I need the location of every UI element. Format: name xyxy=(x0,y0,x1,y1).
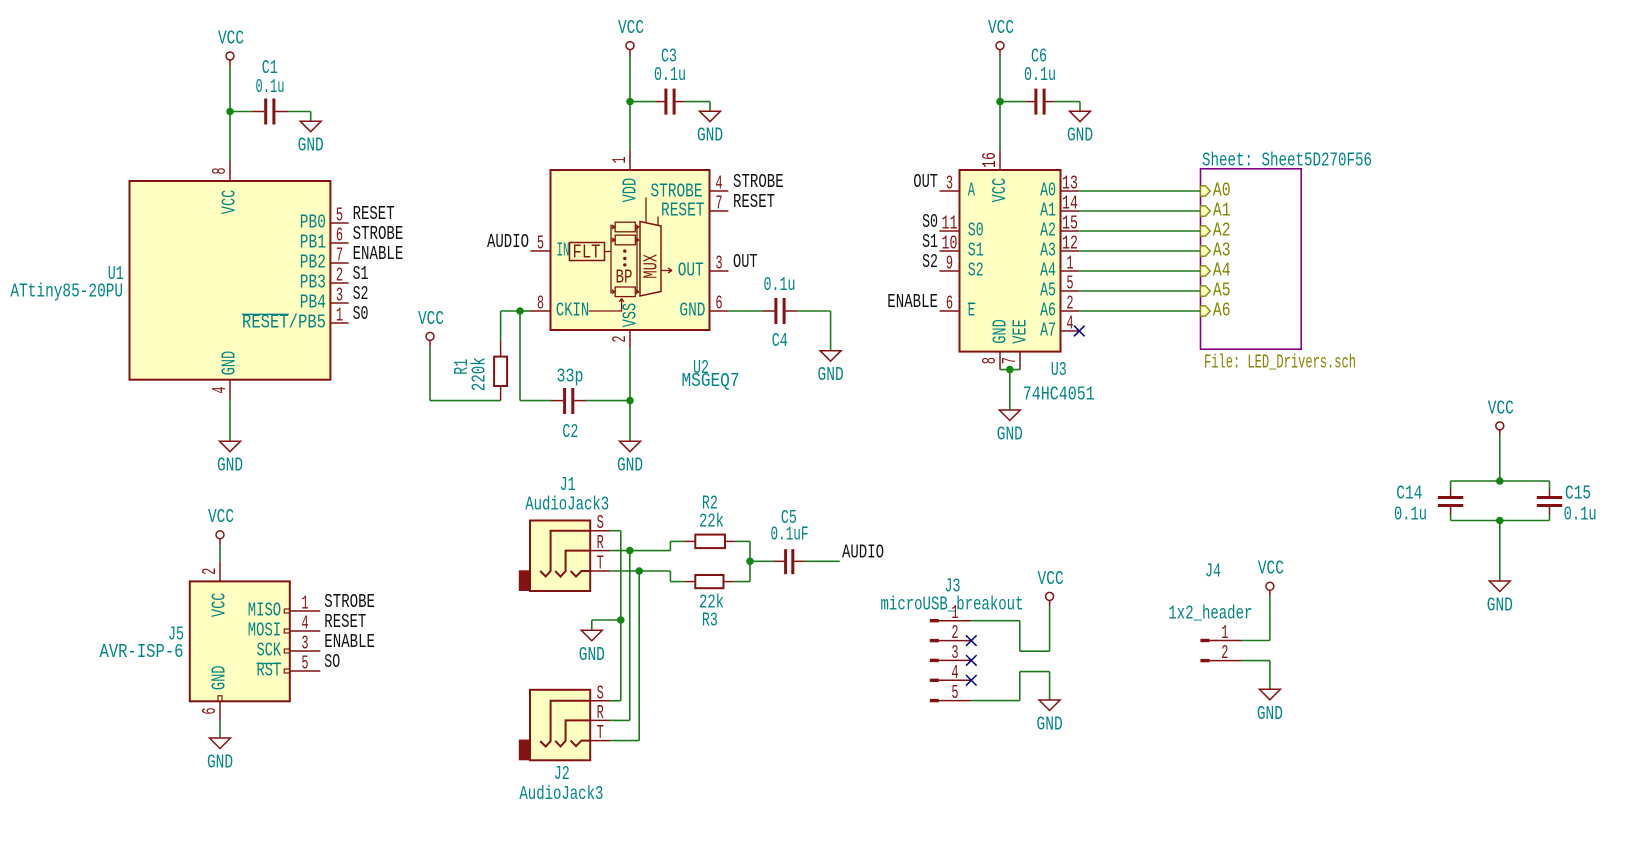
svg-text:1: 1 xyxy=(301,593,308,615)
svg-text:0.1u: 0.1u xyxy=(764,274,796,296)
pin 2 xyxy=(330,282,348,284)
wire VCC to U3 pin 16 xyxy=(999,56,1001,150)
wire A2 to sheet xyxy=(1079,230,1200,232)
pin 5 (J3) xyxy=(930,699,972,702)
wire A3 to sheet xyxy=(1079,250,1200,252)
sheet pin A5 xyxy=(1201,280,1231,302)
ground (C1) xyxy=(298,121,324,157)
junction xyxy=(1496,517,1504,525)
pin 1 xyxy=(284,609,320,613)
svg-text:9: 9 xyxy=(946,253,953,275)
svg-text:VCC: VCC xyxy=(989,178,1011,203)
svg-text:14: 14 xyxy=(1062,193,1078,215)
pin 10 xyxy=(940,250,960,252)
junction xyxy=(746,558,754,566)
wire C6 to GND xyxy=(1046,102,1081,112)
power VCC (U3) xyxy=(988,17,1014,56)
wire sleeve bus xyxy=(610,531,621,701)
svg-text:16: 16 xyxy=(979,152,1001,168)
svg-text:SO: SO xyxy=(324,651,340,673)
U2 internal MUX xyxy=(640,222,663,297)
wire VCC to U1 pin 8 xyxy=(229,66,231,161)
svg-text:0.1u: 0.1u xyxy=(1024,64,1056,86)
svg-text:R: R xyxy=(597,702,604,724)
svg-text:PB1: PB1 xyxy=(300,232,326,254)
U2 internal strobe/reset lines xyxy=(646,198,658,226)
svg-text:6: 6 xyxy=(336,225,343,247)
svg-text:GND: GND xyxy=(217,455,243,477)
svg-text:1x2_header: 1x2_header xyxy=(1168,602,1252,624)
wire ring to R2 xyxy=(630,541,696,550)
svg-text:AUDIO: AUDIO xyxy=(487,231,529,253)
svg-text:C4: C4 xyxy=(772,330,788,352)
svg-text:A3: A3 xyxy=(1213,240,1231,262)
junction xyxy=(626,98,634,106)
pin 5 xyxy=(284,669,320,673)
svg-text:S2: S2 xyxy=(353,283,369,305)
sheet pin A4 xyxy=(1201,260,1231,282)
svg-text:7: 7 xyxy=(336,245,343,267)
svg-text:22k: 22k xyxy=(699,511,724,533)
svg-text:GND: GND xyxy=(617,455,643,477)
svg-text:RST: RST xyxy=(257,660,282,682)
capacitor C4 xyxy=(774,298,785,324)
svg-text:PB0: PB0 xyxy=(300,212,326,234)
svg-text:2: 2 xyxy=(199,568,221,575)
svg-text:3: 3 xyxy=(951,642,958,664)
no-connect xyxy=(966,635,977,646)
svg-text:0.1u: 0.1u xyxy=(654,64,686,86)
svg-text:74HC4051: 74HC4051 xyxy=(1023,384,1095,406)
pin name E xyxy=(968,300,976,322)
wire VCC to rail xyxy=(1499,436,1501,481)
svg-text:GND: GND xyxy=(1067,125,1093,147)
svg-text:A6: A6 xyxy=(1213,300,1231,322)
svg-text:13: 13 xyxy=(1062,173,1078,195)
svg-text:C14: C14 xyxy=(1396,483,1422,505)
svg-text:15: 15 xyxy=(1062,213,1078,235)
power VCC (C14/C15) xyxy=(1488,397,1514,436)
svg-text:AudioJack3: AudioJack3 xyxy=(519,783,603,805)
svg-text:1: 1 xyxy=(1221,622,1228,644)
svg-text:6: 6 xyxy=(946,293,953,315)
ground (C6) xyxy=(1067,111,1093,147)
wire rail to GND xyxy=(1499,521,1501,582)
pin 6 xyxy=(218,696,222,721)
svg-text:6: 6 xyxy=(715,293,722,315)
svg-text:MOSI: MOSI xyxy=(248,620,281,642)
svg-text:VCC: VCC xyxy=(1038,568,1064,590)
svg-text:MSGEQ7: MSGEQ7 xyxy=(682,370,740,392)
no-connect xyxy=(966,675,977,686)
wire A6 to sheet xyxy=(1079,310,1200,312)
capacitor C1 xyxy=(264,99,275,125)
svg-text:GND: GND xyxy=(1257,703,1283,725)
svg-text:STROBE: STROBE xyxy=(733,171,784,193)
svg-text:2: 2 xyxy=(336,265,343,287)
pin S xyxy=(590,700,610,702)
svg-text:GND: GND xyxy=(1487,595,1513,617)
svg-text:10: 10 xyxy=(942,233,958,255)
pin 3 xyxy=(940,190,960,192)
svg-text:J4: J4 xyxy=(1205,560,1221,582)
wire VCC to U2 pin 1 xyxy=(629,56,631,150)
power VCC (R1) xyxy=(418,308,444,347)
svg-text:RESET: RESET xyxy=(661,200,705,222)
pin 13 xyxy=(1061,190,1080,192)
pin T xyxy=(590,740,610,742)
svg-text:1: 1 xyxy=(336,305,343,327)
svg-text:File: LED_Drivers.sch: File: LED_Drivers.sch xyxy=(1204,352,1356,374)
wire VCC to J5 pin 2 xyxy=(219,545,221,561)
svg-text:RESET: RESET xyxy=(733,191,775,213)
svg-text:VCC: VCC xyxy=(988,17,1014,39)
svg-text:0.1u: 0.1u xyxy=(1394,503,1427,525)
pin 14 xyxy=(1061,210,1080,212)
pin 6 xyxy=(710,310,729,312)
svg-text:ATtiny85-20PU: ATtiny85-20PU xyxy=(10,280,123,302)
svg-text:8: 8 xyxy=(979,357,1001,364)
pin 1 xyxy=(330,322,348,324)
pin 2 (J4) xyxy=(1200,659,1241,662)
ground (U3) xyxy=(997,410,1023,446)
pin name RST xyxy=(257,660,282,682)
svg-text:GND: GND xyxy=(1037,714,1063,736)
ground (J4) xyxy=(1257,689,1283,725)
svg-text:A4: A4 xyxy=(1213,260,1231,282)
IC U3 body xyxy=(960,170,1061,352)
wire junction to C6 xyxy=(1000,101,1035,103)
svg-text:A5: A5 xyxy=(1213,280,1231,302)
svg-text:5: 5 xyxy=(1066,273,1073,295)
svg-text:5: 5 xyxy=(336,205,343,227)
svg-text:8: 8 xyxy=(537,293,544,315)
connector J5 body xyxy=(190,581,290,701)
svg-text:GND: GND xyxy=(997,424,1023,446)
pin 4 (J3) xyxy=(930,679,972,682)
pin 4 xyxy=(710,190,729,192)
svg-text:GND: GND xyxy=(219,351,241,376)
svg-text:3: 3 xyxy=(946,173,953,195)
svg-text:A2: A2 xyxy=(1040,220,1056,242)
pin 7 xyxy=(1019,352,1021,370)
svg-text:1: 1 xyxy=(609,156,631,163)
svg-text:IN: IN xyxy=(557,240,570,262)
svg-text:GND: GND xyxy=(298,135,324,157)
svg-text:MUX: MUX xyxy=(641,254,663,279)
wire R1 top to junction xyxy=(501,311,520,357)
svg-text:OUT: OUT xyxy=(913,171,938,193)
svg-text:VCC: VCC xyxy=(1488,397,1514,419)
power VCC (U2) xyxy=(618,17,644,56)
pin 7 xyxy=(330,262,348,264)
svg-text:R: R xyxy=(597,532,604,554)
svg-text:S1: S1 xyxy=(968,240,984,262)
junction xyxy=(1496,477,1504,485)
svg-text:VCC: VCC xyxy=(618,17,644,39)
pin 4 xyxy=(1061,330,1080,332)
svg-text:C15: C15 xyxy=(1565,483,1591,505)
pin 3 (J3) xyxy=(930,659,972,662)
pin 5 xyxy=(330,222,348,224)
svg-text:S1: S1 xyxy=(353,263,369,285)
svg-text:GND: GND xyxy=(679,300,705,322)
wire node to C5 xyxy=(750,560,784,562)
pin 2 xyxy=(218,561,222,587)
svg-text:STROBE: STROBE xyxy=(324,591,375,613)
wire U2 VSS to GND xyxy=(629,348,631,441)
wire R3 to node xyxy=(724,561,751,581)
svg-text:6: 6 xyxy=(199,707,221,714)
junction xyxy=(516,307,524,315)
svg-text:A5: A5 xyxy=(1040,280,1056,302)
wire junction to C3 xyxy=(630,101,665,103)
wire U1 pin4 to GND xyxy=(229,400,231,441)
wire C5 to AUDIO xyxy=(794,560,840,562)
sheet pin A3 xyxy=(1201,240,1231,262)
wire A4 to sheet xyxy=(1079,270,1200,272)
pin 11 xyxy=(940,230,960,232)
pin 2 xyxy=(1061,310,1080,312)
svg-text:2: 2 xyxy=(1221,642,1228,664)
sheet pin A0 xyxy=(1201,180,1231,202)
IC U2 body xyxy=(551,170,710,330)
svg-text:S2: S2 xyxy=(968,260,984,282)
svg-text:GND: GND xyxy=(209,666,231,691)
pin R xyxy=(590,550,610,552)
pin 6 xyxy=(330,242,348,244)
pin S xyxy=(590,530,610,532)
sheet pin A1 xyxy=(1201,200,1231,222)
svg-text:T: T xyxy=(597,553,604,575)
junction xyxy=(626,397,634,405)
svg-text:GND: GND xyxy=(207,752,233,774)
svg-text:GND: GND xyxy=(579,644,605,666)
svg-text:MISO: MISO xyxy=(248,600,281,622)
no-connect xyxy=(966,655,977,666)
svg-text:2: 2 xyxy=(609,335,631,342)
svg-text:7: 7 xyxy=(999,357,1021,364)
wire junction to C1 xyxy=(230,111,264,113)
pin 8 xyxy=(531,310,551,312)
svg-text:220k: 220k xyxy=(469,357,491,391)
svg-text:C2: C2 xyxy=(562,421,578,443)
svg-text:8: 8 xyxy=(209,167,231,174)
svg-text:A1: A1 xyxy=(1213,200,1231,222)
svg-text:4: 4 xyxy=(715,173,722,195)
wire R2 to node xyxy=(725,541,750,561)
svg-text:VCC: VCC xyxy=(1258,558,1284,580)
pin 1 xyxy=(1061,270,1080,272)
svg-text:A7: A7 xyxy=(1040,320,1056,342)
svg-text:VCC: VCC xyxy=(218,27,244,49)
svg-text:AVR-ISP-6: AVR-ISP-6 xyxy=(100,641,184,663)
no-connect A7 xyxy=(1074,326,1085,337)
wire ring bus xyxy=(610,551,630,721)
svg-text:J2: J2 xyxy=(554,763,570,785)
svg-text:S0: S0 xyxy=(353,303,369,325)
svg-text:VSS: VSS xyxy=(620,303,642,328)
wire junction to U2 pin 8 xyxy=(520,310,531,312)
ground (C3) xyxy=(697,111,723,147)
wire A0 to sheet xyxy=(1079,190,1200,192)
svg-text:4: 4 xyxy=(951,662,958,684)
pin 9 xyxy=(940,270,960,272)
svg-text:BP: BP xyxy=(616,267,633,289)
svg-text:1: 1 xyxy=(1066,253,1073,275)
svg-text:0.1u: 0.1u xyxy=(1564,503,1597,525)
wire R1 bottom to VCC xyxy=(430,347,501,401)
U2 internal ckin line xyxy=(589,299,624,312)
svg-text:S2: S2 xyxy=(922,251,938,273)
wire U2 GND pin to C4 xyxy=(728,310,774,312)
svg-text:OUT: OUT xyxy=(678,259,704,281)
svg-text:VCC: VCC xyxy=(219,190,241,215)
svg-text:33p: 33p xyxy=(557,366,584,388)
junction xyxy=(1006,366,1014,374)
ground (C14/C15) xyxy=(1487,581,1513,617)
svg-text:VCC: VCC xyxy=(208,506,234,528)
pin 15 xyxy=(1061,230,1080,232)
svg-text:4: 4 xyxy=(1066,313,1073,335)
svg-text:R3: R3 xyxy=(702,609,718,631)
svg-text:ENABLE: ENABLE xyxy=(887,291,938,313)
pin 5 xyxy=(1061,290,1080,292)
wire U3 GND/VEE to ground xyxy=(1000,370,1020,410)
pin 4 xyxy=(229,380,231,401)
svg-text:S0: S0 xyxy=(922,211,938,233)
U2 internal filter bank xyxy=(611,222,639,296)
junction xyxy=(226,108,234,116)
U2 internal out arrow xyxy=(661,268,672,273)
svg-text:2: 2 xyxy=(951,622,958,644)
svg-text:GND: GND xyxy=(697,125,723,147)
junction xyxy=(996,98,1004,106)
ground (jacks) xyxy=(579,630,605,666)
svg-text:VCC: VCC xyxy=(418,308,444,330)
power VCC (J5) xyxy=(208,506,234,545)
pin 3 xyxy=(710,270,729,272)
svg-text:A1: A1 xyxy=(1040,200,1056,222)
pin 4 xyxy=(284,629,320,633)
svg-text:GND: GND xyxy=(990,319,1012,344)
junction xyxy=(626,547,634,555)
pin name RESET/PB5 xyxy=(242,312,326,334)
hierarchical sheet LED_Drivers xyxy=(1201,169,1302,349)
svg-text:A0: A0 xyxy=(1040,180,1056,202)
svg-text:4: 4 xyxy=(209,386,231,393)
wire J5 pin 6 to GND xyxy=(219,721,221,739)
svg-text:STROBE: STROBE xyxy=(353,223,404,245)
capacitor C3 xyxy=(664,89,675,115)
svg-text:U3: U3 xyxy=(1051,359,1067,381)
pin 12 xyxy=(1061,250,1080,252)
wire tip bus xyxy=(610,571,639,741)
ground (U2 VSS) xyxy=(617,441,643,477)
wire rail to C14 xyxy=(1450,481,1452,496)
pin 1 (J4) xyxy=(1200,639,1241,642)
pin 6 xyxy=(940,310,960,312)
pin T xyxy=(590,570,610,572)
IC U1 body xyxy=(130,181,331,380)
svg-text:SCK: SCK xyxy=(257,640,282,662)
svg-text:PB3: PB3 xyxy=(300,272,326,294)
svg-text:PB4: PB4 xyxy=(300,292,326,314)
svg-text:0.1u: 0.1u xyxy=(256,76,285,98)
svg-text:3: 3 xyxy=(715,253,722,275)
capacitor C2 xyxy=(563,388,574,414)
junction xyxy=(635,567,643,575)
svg-text:CKIN: CKIN xyxy=(556,300,589,322)
svg-text:VEE: VEE xyxy=(1010,319,1032,344)
svg-text:FLT: FLT xyxy=(573,242,601,264)
svg-text:A0: A0 xyxy=(1213,180,1231,202)
svg-text:5: 5 xyxy=(951,682,958,704)
resistor R1 xyxy=(494,357,507,386)
wire J3 pin 1 to VCC xyxy=(971,607,1049,651)
pin 3 xyxy=(330,302,348,304)
capacitor C15 xyxy=(1537,496,1562,507)
ground (J3) xyxy=(1037,700,1063,736)
wire A1 to sheet xyxy=(1079,210,1200,212)
svg-text:2: 2 xyxy=(1066,293,1073,315)
svg-text:S0: S0 xyxy=(968,220,984,242)
svg-text:11: 11 xyxy=(942,213,958,235)
wire sleeve to GND xyxy=(592,620,621,630)
svg-text:RESET: RESET xyxy=(324,611,366,633)
wire C15 to bottom rail xyxy=(1549,507,1551,521)
junction xyxy=(617,616,625,624)
wire C2 left to CKIN junction xyxy=(520,311,563,401)
wire J4 pin 1 to VCC xyxy=(1242,597,1270,641)
svg-text:A2: A2 xyxy=(1213,220,1231,242)
capacitor C14 xyxy=(1438,496,1463,507)
svg-text:VDD: VDD xyxy=(620,178,642,203)
wire C14 to bottom rail xyxy=(1450,507,1452,521)
resistor R2 xyxy=(695,535,725,549)
sheet pin A2 xyxy=(1201,220,1231,242)
wire rail to C15 xyxy=(1549,481,1551,496)
pin 8 xyxy=(229,161,231,181)
capacitor C5 xyxy=(784,549,794,574)
svg-text:OUT: OUT xyxy=(733,251,758,273)
wire C4 to GND xyxy=(786,311,831,351)
svg-text:7: 7 xyxy=(715,193,722,215)
svg-text:A4: A4 xyxy=(1040,260,1056,282)
svg-text:VCC: VCC xyxy=(209,593,231,618)
pin 1 (J3) xyxy=(930,619,972,622)
pin 7 xyxy=(710,210,729,212)
svg-text:AUDIO: AUDIO xyxy=(842,541,884,563)
wire tip to R3 xyxy=(639,571,695,582)
svg-text:5: 5 xyxy=(301,653,308,675)
svg-text:ENABLE: ENABLE xyxy=(353,243,404,265)
svg-text:5: 5 xyxy=(537,233,544,255)
svg-text:S1: S1 xyxy=(922,231,938,253)
capacitor C6 xyxy=(1034,89,1045,115)
svg-text:A6: A6 xyxy=(1040,300,1056,322)
svg-text:T: T xyxy=(597,722,604,744)
svg-text:3: 3 xyxy=(336,285,343,307)
wire J4 pin 2 to GND xyxy=(1242,661,1270,690)
svg-text:ENABLE: ENABLE xyxy=(324,631,375,653)
svg-text:GND: GND xyxy=(818,364,844,386)
ground (C4) xyxy=(818,351,844,387)
svg-text:PB2: PB2 xyxy=(300,252,326,274)
connector J2 AudioJack3 xyxy=(519,690,590,761)
resistor R3 xyxy=(695,575,723,588)
wire C2 to junction xyxy=(574,400,630,402)
